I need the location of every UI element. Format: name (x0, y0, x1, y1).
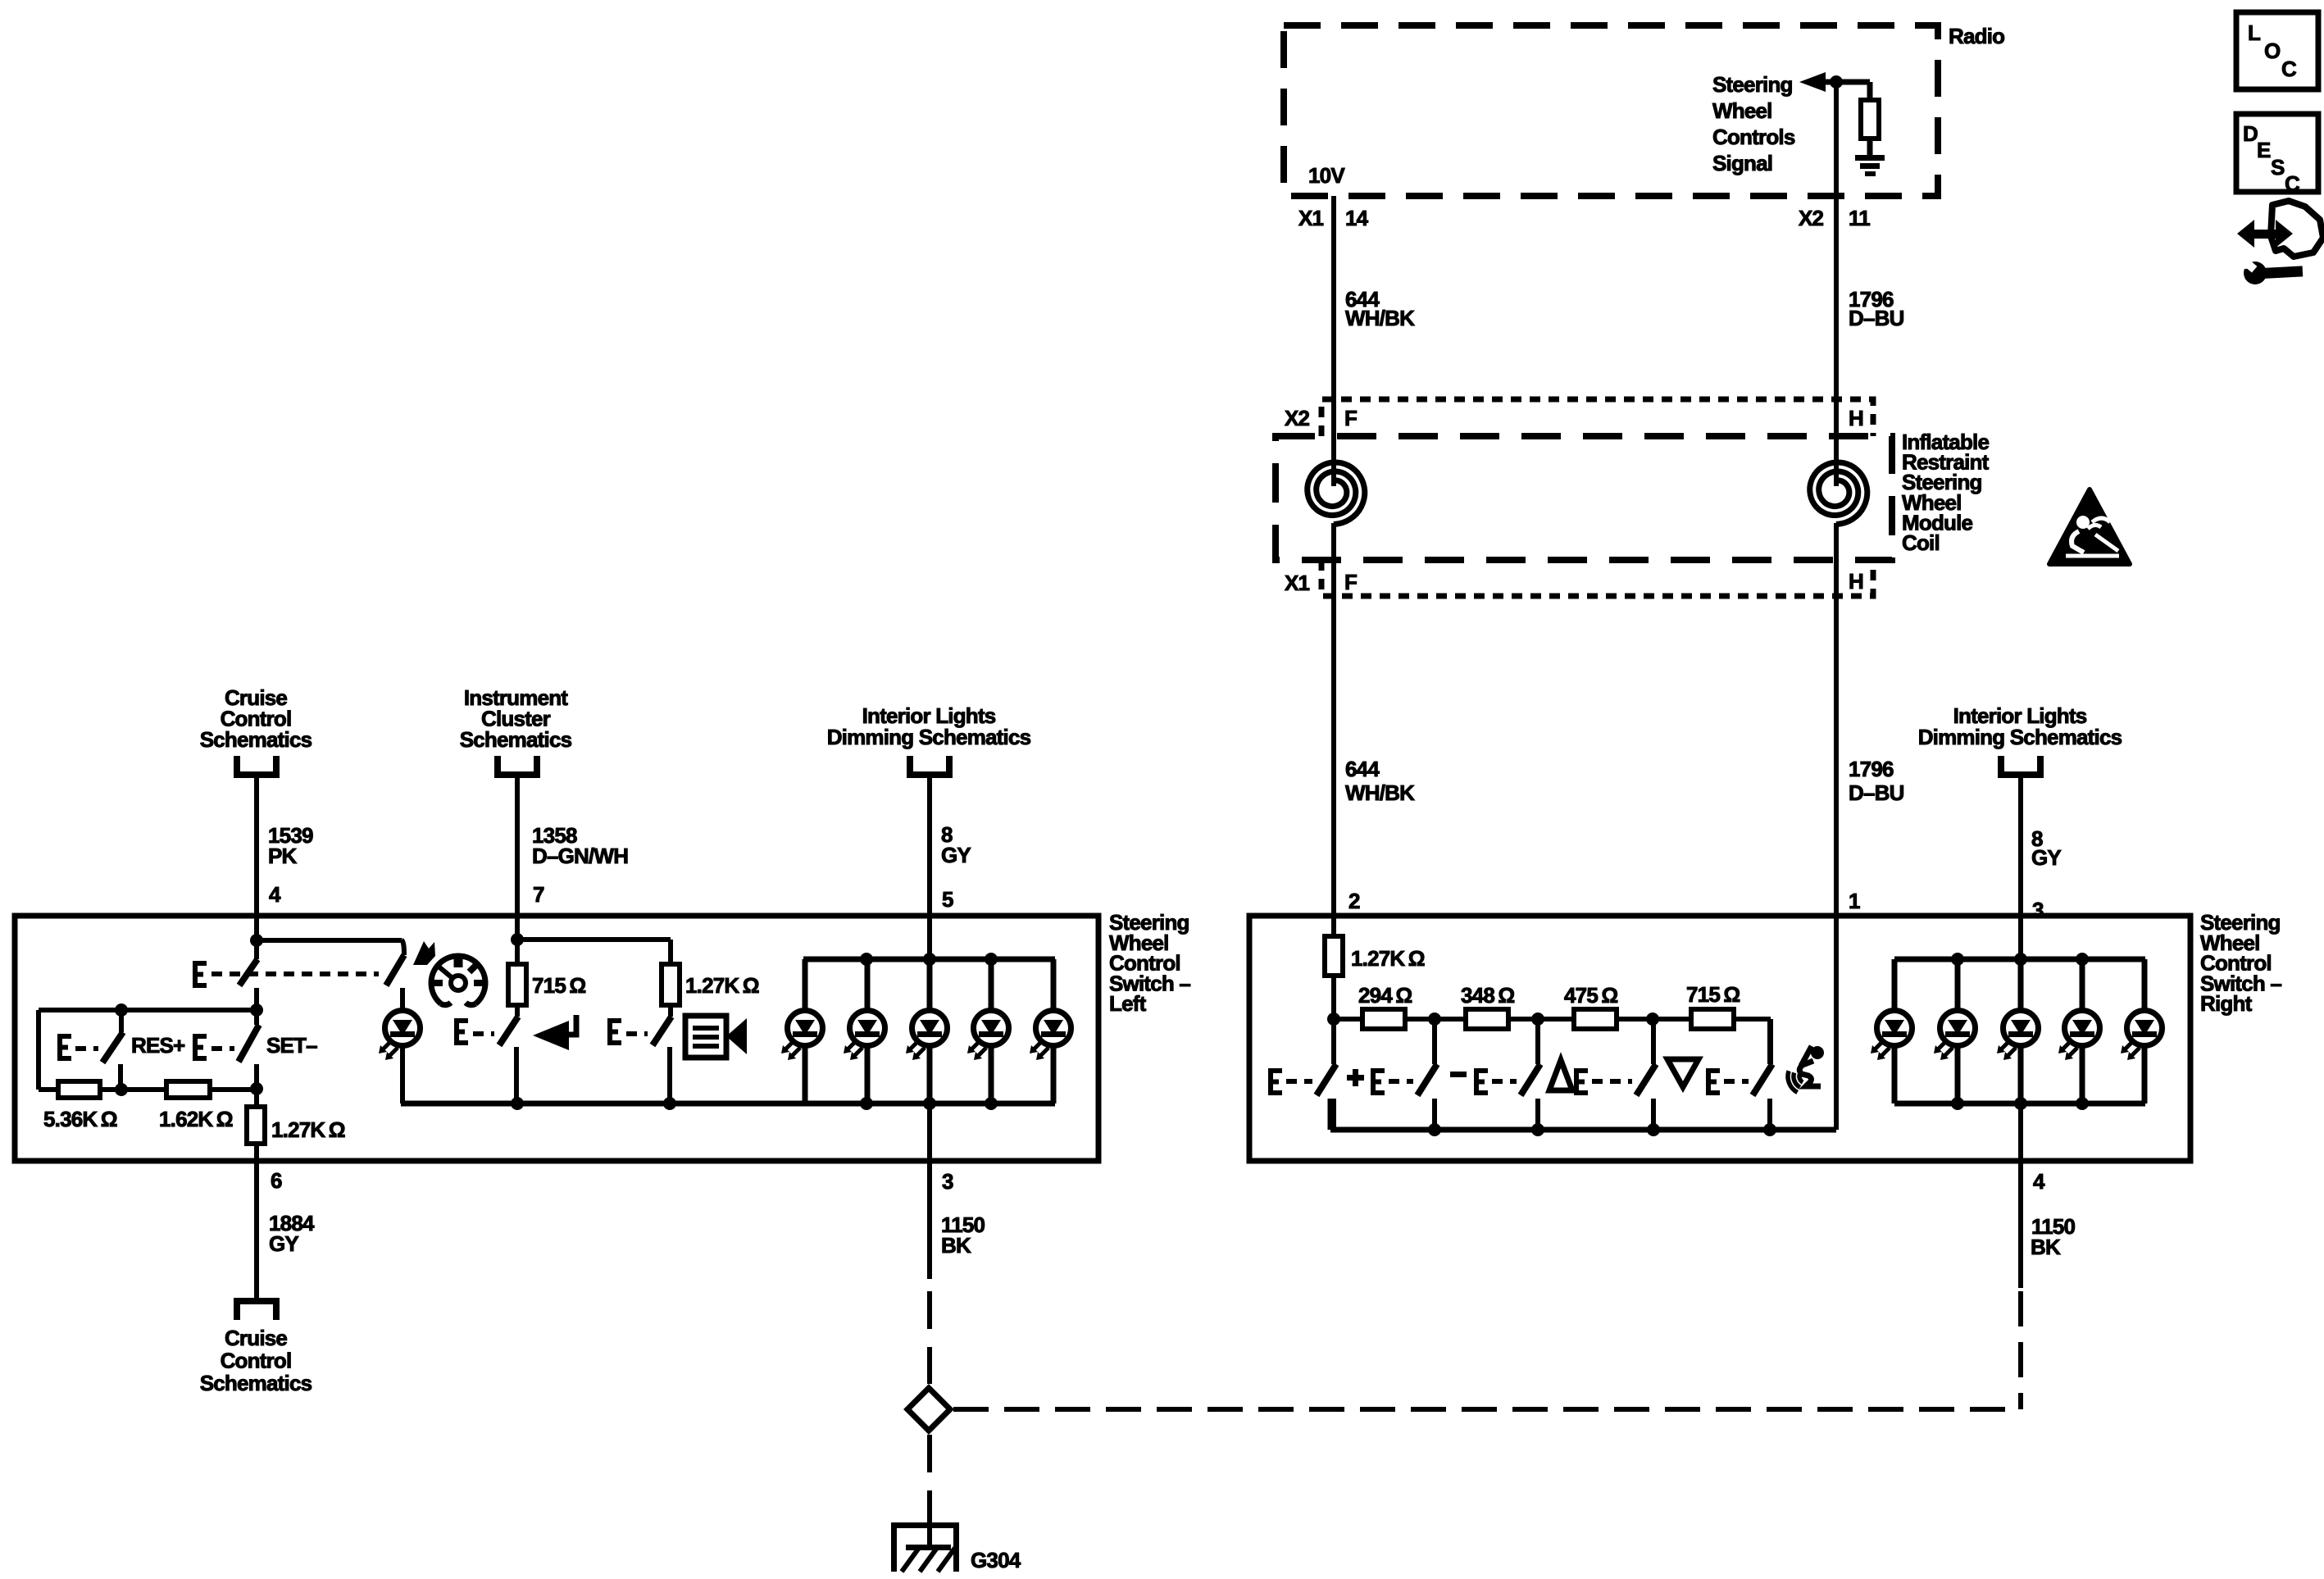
svg-text:WH/BK: WH/BK (1345, 306, 1415, 330)
svg-text:D–BU: D–BU (1849, 780, 1904, 805)
svg-text:WH/BK: WH/BK (1345, 780, 1415, 805)
svg-text:G304: G304 (971, 1548, 1021, 1572)
svg-text:D–GN/WH: D–GN/WH (532, 844, 628, 868)
svg-text:4: 4 (269, 882, 281, 907)
svg-text:D: D (2243, 121, 2258, 146)
svg-text:S: S (2271, 155, 2285, 180)
svg-text:1.27K Ω: 1.27K Ω (1351, 946, 1425, 971)
svg-text:X1: X1 (1298, 206, 1324, 230)
svg-text:F: F (1344, 570, 1357, 594)
svg-text:F: F (1344, 406, 1357, 430)
svg-text:Coil: Coil (1902, 530, 1940, 555)
svg-text:2: 2 (1348, 889, 1360, 913)
svg-text:BK: BK (2031, 1235, 2061, 1259)
svg-text:C: C (2281, 57, 2297, 81)
svg-text:715 Ω: 715 Ω (532, 973, 585, 998)
svg-text:Schematics: Schematics (460, 727, 572, 752)
svg-text:10V: 10V (1308, 163, 1345, 188)
svg-text:Schematics: Schematics (200, 1371, 312, 1395)
svg-text:Right: Right (2200, 991, 2253, 1016)
svg-text:5.36K Ω: 5.36K Ω (43, 1107, 117, 1131)
svg-text:GY: GY (269, 1231, 298, 1256)
svg-text:Schematics: Schematics (200, 727, 312, 752)
svg-text:1.27K Ω: 1.27K Ω (685, 973, 759, 998)
svg-text:294 Ω: 294 Ω (1358, 983, 1412, 1008)
svg-text:C: C (2285, 171, 2300, 196)
svg-text:Signal: Signal (1712, 151, 1772, 175)
svg-text:L: L (2248, 20, 2261, 45)
svg-text:Wheel: Wheel (1712, 98, 1772, 123)
svg-text:1.27K Ω: 1.27K Ω (271, 1117, 345, 1142)
svg-text:H: H (1849, 569, 1863, 594)
svg-text:Control: Control (221, 1349, 292, 1373)
svg-text:7: 7 (533, 882, 544, 907)
svg-text:H: H (1849, 406, 1863, 430)
svg-text:Cruise: Cruise (225, 1326, 287, 1350)
svg-text:Controls: Controls (1712, 125, 1795, 149)
svg-text:RES+: RES+ (131, 1033, 185, 1058)
svg-text:GY: GY (941, 843, 971, 867)
svg-text:PK: PK (268, 844, 298, 868)
svg-text:Dimming Schematics: Dimming Schematics (1918, 725, 2122, 749)
svg-text:1796: 1796 (1849, 757, 1894, 781)
svg-text:5: 5 (942, 887, 953, 912)
svg-text:Steering: Steering (1712, 72, 1793, 97)
svg-text:BK: BK (941, 1233, 971, 1258)
svg-text:SET–: SET– (266, 1033, 317, 1058)
svg-text:Left: Left (1109, 991, 1147, 1016)
svg-text:11: 11 (1849, 206, 1870, 230)
svg-text:4: 4 (2033, 1169, 2045, 1194)
svg-text:E: E (2257, 138, 2271, 162)
svg-text:GY: GY (2031, 845, 2061, 870)
svg-text:X1: X1 (1285, 571, 1310, 595)
svg-text:X2: X2 (1799, 206, 1824, 230)
svg-text:644: 644 (1345, 757, 1380, 781)
svg-text:D–BU: D–BU (1849, 306, 1904, 330)
svg-text:475 Ω: 475 Ω (1564, 983, 1617, 1008)
svg-text:3: 3 (942, 1169, 953, 1194)
svg-text:6: 6 (271, 1168, 282, 1193)
svg-text:1.62K Ω: 1.62K Ω (159, 1107, 233, 1131)
svg-text:O: O (2264, 39, 2281, 63)
svg-text:Radio: Radio (1949, 24, 2004, 48)
svg-text:Dimming Schematics: Dimming Schematics (827, 725, 1031, 749)
svg-text:348 Ω: 348 Ω (1461, 983, 1514, 1008)
svg-text:X2: X2 (1285, 406, 1310, 430)
svg-text:715 Ω: 715 Ω (1686, 982, 1740, 1007)
svg-text:14: 14 (1345, 206, 1369, 230)
svg-text:1: 1 (1849, 889, 1860, 913)
